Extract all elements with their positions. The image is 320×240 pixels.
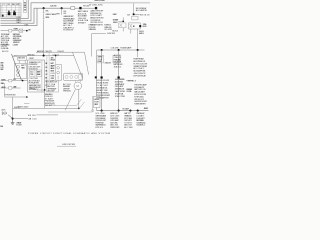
bus bar shading: [92, 2, 150, 4]
svg-text:FL BLWR LAMP: FL BLWR LAMP: [120, 47, 132, 50]
svg-text:AM SOL: AM SOL: [139, 32, 145, 35]
svg-text:CABLE: CABLE: [0, 82, 4, 85]
svg-text:ST LAMP: ST LAMP: [122, 107, 130, 110]
svg-text:30A LAMP C2: 30A LAMP C2: [45, 104, 56, 107]
svg-text:SOL 10A: SOL 10A: [126, 90, 132, 93]
node J1: [43, 7, 45, 9]
svg-text:ACC DEF: ACC DEF: [124, 126, 133, 129]
wire WC riser: [1, 8, 38, 25]
svg-text:B1 PWR: B1 PWR: [94, 104, 98, 106]
svg-text:IGN: IGN: [13, 56, 17, 58]
wires below relay K1: [131, 29, 138, 50]
svg-text:AM DEF: AM DEF: [47, 90, 55, 93]
svg-text:4B B13: 4B B13: [128, 81, 137, 83]
svg-text:C2 BATT: C2 BATT: [13, 43, 20, 46]
footer rule: [57, 145, 76, 147]
wire C204 C2 corner: [92, 34, 107, 57]
svg-text:FUSE FUSE HTR: FUSE FUSE HTR: [134, 104, 146, 106]
fuse blocks F2 F3: [97, 55, 104, 63]
svg-text:CABLE: CABLE: [13, 86, 17, 89]
fuse F4: [71, 7, 75, 10]
svg-text:JUNC DIST SW: JUNC DIST SW: [62, 144, 75, 146]
svg-text:BLWR: BLWR: [143, 26, 148, 28]
node W3: [133, 13, 135, 15]
wire from node J2: [61, 8, 63, 15]
wire with fusible link FL4: [118, 50, 120, 111]
svg-text:JUNC SW: JUNC SW: [107, 33, 115, 35]
svg-text:4B B6: 4B B6: [28, 115, 36, 117]
svg-text:4B C10: 4B C10: [28, 118, 37, 120]
svg-text:BLOCK: BLOCK: [2, 51, 9, 53]
svg-text:ST ACC PWR: ST ACC PWR: [115, 95, 126, 98]
svg-text:DEF AM: DEF AM: [13, 27, 18, 30]
svg-text:FUSE 30A: FUSE 30A: [1, 47, 9, 50]
svg-text:AM DIST: AM DIST: [144, 107, 149, 110]
connector box C3 with labels: [46, 80, 58, 92]
nodes J4 J5 J6 on bus B2: [101, 49, 103, 51]
relay K1: [129, 23, 141, 29]
alternator G1 box: [93, 97, 100, 108]
wire 4B B6: [36, 114, 58, 116]
ignition switch SW1 body: [15, 63, 27, 78]
svg-text:POWER CIRCUIT FUNCTIONAL SCHEM: POWER CIRCUIT FUNCTIONAL SCHEMATIC AND S…: [28, 132, 110, 135]
svg-text:MTR: MTR: [13, 79, 17, 81]
node J2: [61, 7, 63, 9]
svg-text:DEF SW RELAY: DEF SW RELAY: [133, 75, 146, 78]
svg-text:10A W3: 10A W3: [113, 21, 119, 24]
svg-text:HTR FUSE: HTR FUSE: [1, 87, 6, 89]
node J12 battery junction: [12, 118, 14, 120]
svg-text:SW BATT: SW BATT: [78, 22, 87, 25]
svg-text:AM LINK: AM LINK: [37, 73, 41, 76]
svg-text:ACC LAMP B1: ACC LAMP B1: [136, 9, 148, 12]
wire W0: [1, 0, 29, 18]
wires from starter M1: [65, 89, 75, 110]
wire WA to top bus: [1, 3, 151, 21]
svg-text:PWR CABLE: PWR CABLE: [1, 43, 11, 46]
wire WB to mid bus: [1, 8, 71, 23]
fusible link FL1: [79, 7, 81, 9]
starter enclosure outlines: [55, 99, 81, 105]
bus B3 with nodes J7 J8 J9 J10: [97, 110, 149, 112]
accessory relay K3: [56, 65, 62, 81]
table T1 filled cells: [8, 12, 11, 15]
svg-text:RELAY: RELAY: [98, 60, 103, 63]
svg-text:SOL MTR: SOL MTR: [104, 29, 112, 31]
note box N1: [23, 0, 26, 12]
svg-text:30A LINK: 30A LINK: [104, 61, 111, 64]
svg-text:SOL AM SOL: SOL AM SOL: [136, 124, 146, 127]
wire to battery junction label: [137, 50, 139, 57]
svg-text:PWR: PWR: [30, 74, 34, 76]
connector box C1: [132, 16, 138, 20]
label columns under bus B3: [102, 111, 138, 113]
svg-text:CABLE IGN: CABLE IGN: [88, 28, 96, 31]
svg-text:A4 W1 C204: A4 W1 C204: [37, 50, 44, 53]
bus B2: [97, 49, 145, 51]
ignition switch SW1 header: [18, 56, 27, 60]
svg-text:MTR COIL: MTR COIL: [30, 89, 37, 91]
svg-text:AM 10A: AM 10A: [50, 59, 55, 62]
svg-text:PWR JUNC: PWR JUNC: [63, 91, 72, 93]
svg-text:FL DIST: FL DIST: [16, 125, 23, 127]
svg-text:ST LINK: ST LINK: [45, 17, 50, 19]
fusible link FL2: [95, 7, 97, 9]
svg-text:HTR MTR SW: HTR MTR SW: [5, 94, 16, 96]
svg-text:RELAY: RELAY: [21, 66, 26, 69]
svg-text:SOL PWR: SOL PWR: [1, 80, 6, 82]
wire from node J1 with connectors C204: [43, 8, 45, 55]
wires into fuse block FB1: [47, 52, 49, 88]
wires A4 W1 C204 and C204 C2: [36, 51, 85, 53]
svg-text:W3 B13: W3 B13: [140, 14, 150, 16]
svg-text:JUNC: JUNC: [16, 4, 20, 6]
connector pinout table T1: [1, 3, 22, 17]
wire with inline switch SW2: [1, 30, 28, 32]
svg-text:LINK: LINK: [1, 110, 6, 112]
svg-text:PWR FL DIST: PWR FL DIST: [110, 127, 120, 129]
cable links with label boxes: [1, 80, 9, 82]
starter motor M1: [74, 82, 82, 90]
wire with fusible link FL3: [101, 50, 103, 111]
svg-text:30A ST: 30A ST: [112, 13, 117, 16]
cable harness funnel: [73, 52, 89, 77]
switch SW1 lever: [12, 54, 22, 80]
svg-text:C2 DIST: C2 DIST: [29, 58, 35, 60]
battery BAT symbol: [2, 111, 6, 115]
svg-text:HTR SOL: HTR SOL: [95, 127, 104, 129]
svg-text:FL W3 B1 ST: FL W3 B1 ST: [63, 30, 74, 32]
svg-text:RELAY W3 CABLE: RELAY W3 CABLE: [94, 0, 106, 2]
wire to node W3: [133, 3, 135, 13]
svg-text:ST JUNC JUNC: ST JUNC JUNC: [89, 5, 103, 7]
starter solenoid S1: [64, 73, 83, 80]
svg-text:C204 C2 W: C204 C2 W: [45, 51, 52, 53]
svg-text:BRAKE CABLE: BRAKE CABLE: [18, 106, 30, 109]
wire with node J3 and relay K2: [122, 17, 124, 31]
svg-text:BATT: BATT: [17, 21, 23, 24]
battery BAT pointer: [8, 115, 12, 118]
svg-text:C204 W2: C204 W2: [57, 51, 64, 53]
battery BAT wires: [12, 97, 14, 119]
svg-text:10A LINK: 10A LINK: [50, 4, 58, 7]
wire 4B B13: [126, 80, 133, 82]
ground G1: [11, 120, 15, 125]
svg-text:AM LINK: AM LINK: [18, 57, 26, 60]
svg-text:MTR: MTR: [56, 14, 60, 16]
instrument panel fuse block FB1: [28, 60, 45, 92]
svg-text:30A SOL: 30A SOL: [114, 65, 123, 68]
svg-text:A4 W1 C204: A4 W1 C204: [27, 53, 34, 56]
relay K1 contact: [139, 25, 141, 27]
